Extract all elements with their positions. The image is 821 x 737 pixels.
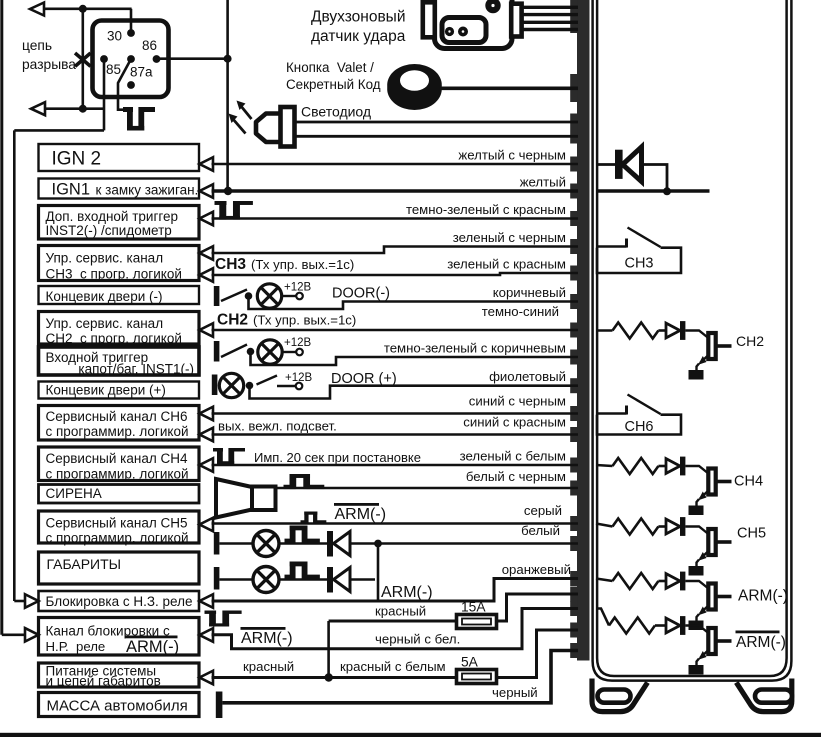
wire yellow (IGN1) <box>212 189 579 193</box>
svg-text:Светодиод: Светодиод <box>301 104 371 120</box>
ground bar car mass <box>216 692 223 719</box>
svg-text:Сервисный канал СН5: Сервисный канал СН5 <box>46 516 188 531</box>
svg-text:Упр. сервис. канал: Упр. сервис. канал <box>46 251 164 266</box>
wire dark-green-brown (INST1) <box>251 352 579 366</box>
wire red to pin <box>497 594 579 621</box>
shock sensor left tab <box>423 2 435 37</box>
shock sensor top screw <box>485 0 500 13</box>
svg-text:Сервисный канал СН6: Сервисный канал СН6 <box>46 409 188 424</box>
label DOOR (+) <box>331 371 397 387</box>
LED flange <box>281 107 295 147</box>
arrow into INST2 box <box>200 212 214 226</box>
wire vertical between arrows <box>82 9 85 109</box>
label yellow-black <box>458 148 566 163</box>
svg-text:черный с бел.: черный с бел. <box>375 632 460 647</box>
svg-text:СН3: СН3 <box>624 256 653 272</box>
break mark X (tsep razryva) <box>75 53 91 66</box>
arrow into CH3 box lower <box>200 268 214 282</box>
negative pulse symbol INST2 <box>215 201 253 220</box>
wire green-red (CH3 lower) <box>212 273 579 275</box>
wire lamp INST1 to +12V <box>282 349 303 356</box>
svg-text:темно-зеленый с коричневым: темно-зеленый с коричневым <box>384 341 566 356</box>
lamp parking lights 2 <box>253 567 279 593</box>
svg-text:СН3 с прогр. логикой: СН3 с прогр. логикой <box>46 267 182 282</box>
svg-text:Секретный Код: Секретный Код <box>286 77 381 92</box>
svg-text:красный с белым: красный с белым <box>340 659 446 674</box>
arrow into IGN1 box <box>200 184 214 198</box>
node D1 to yellow wire <box>663 187 671 195</box>
arrow into CH3 box upper <box>200 246 214 260</box>
svg-text:Упр. сервис. канал: Упр. сервис. канал <box>46 316 164 331</box>
shock sensor inner connector <box>442 18 486 43</box>
wire junction vertical <box>377 544 380 601</box>
svg-text:15А: 15А <box>461 600 486 615</box>
svg-text:серый: серый <box>524 503 562 518</box>
svg-text:85: 85 <box>106 62 121 77</box>
wire yellow-black (IGN2) <box>212 163 579 166</box>
wire violet (DOOR+) <box>250 386 579 399</box>
svg-text:красный: красный <box>243 659 294 674</box>
wire red through 15A fuse <box>329 620 457 623</box>
LED emission arrow 2 <box>229 114 246 134</box>
svg-text:5А: 5А <box>461 655 479 670</box>
svg-text:ГАБАРИТЫ: ГАБАРИТЫ <box>47 556 122 572</box>
arrow into CH4 box <box>200 458 214 472</box>
svg-text:ARM(-): ARM(-) <box>738 588 788 605</box>
svg-text:ARM(-): ARM(-) <box>241 630 293 647</box>
svg-text:Имп. 20 сек при постановке: Имп. 20 сек при постановке <box>254 450 421 465</box>
svg-text:IGN 2: IGN 2 <box>52 149 102 170</box>
box INST2 trigger <box>39 206 200 240</box>
wire blue-black (CH6 upper) <box>212 412 579 415</box>
wire white-black (SIREN) <box>276 487 579 490</box>
label white <box>521 523 560 538</box>
node junction top <box>79 5 87 13</box>
box blocking channel second line with ARM(-) label <box>46 636 180 657</box>
label +12V door(+) <box>285 372 313 384</box>
wire yellow stub inside unit <box>596 189 710 193</box>
arrow into blocking channel box right <box>200 628 214 642</box>
svg-text:красный: красный <box>375 604 426 619</box>
arrow into blocking NC box right <box>200 594 214 608</box>
label orange <box>502 562 571 577</box>
svg-text:ARM(-): ARM(-) <box>736 634 786 651</box>
relay pin 86 lead <box>157 57 228 60</box>
label blue-black <box>469 394 566 409</box>
switch CH3 inside unit <box>596 228 681 274</box>
arrow into blocking channel box left <box>25 628 39 642</box>
relay pin 30 <box>107 29 135 44</box>
relay pin 87 bottom contact <box>127 81 135 89</box>
wire lamp to +12V terminal <box>282 293 303 300</box>
svg-text:и цепей габаритов: и цепей габаритов <box>46 674 161 689</box>
switch CH6 inside unit <box>596 395 681 435</box>
valet button wire <box>441 87 578 91</box>
svg-text:с программир. логикой: с программир. логикой <box>46 531 189 546</box>
svg-text:темно-синий: темно-синий <box>482 304 559 319</box>
negative pulse symbol blocking channel <box>205 611 242 627</box>
box CH3 service channel <box>39 246 200 282</box>
lamp door (-) <box>257 284 281 308</box>
sensor wire 2 <box>521 13 578 16</box>
siren horn <box>216 479 276 518</box>
LED body dome <box>256 114 281 143</box>
left page border wire (to N.O. relay channel) <box>2 0 26 635</box>
svg-text:Концевик двери (+): Концевик двери (+) <box>46 383 166 398</box>
wire blue-red (CH6 lower) <box>212 433 579 436</box>
svg-text:IGN1: IGN1 <box>52 181 91 199</box>
box door switch (+) <box>39 382 200 399</box>
label CH3 inside <box>624 256 653 272</box>
label dark-green-brown <box>384 341 566 356</box>
svg-text:вых. вежл. подсвет.: вых. вежл. подсвет. <box>218 419 337 434</box>
label red-white <box>340 659 446 674</box>
svg-text:ARM(-): ARM(-) <box>126 638 179 656</box>
label ARM(-) overlined small <box>241 627 293 647</box>
lamp parking lights 1 <box>253 531 279 557</box>
node power junction <box>325 673 333 681</box>
box blocking channel NO relay <box>39 618 200 656</box>
arrow into CH5 box <box>200 518 214 532</box>
svg-text:Доп. входной триггер: Доп. входной триггер <box>46 209 179 224</box>
fuse 5A <box>457 670 497 684</box>
label dark-blue <box>482 304 559 319</box>
positive pulse symbol siren wire <box>284 474 325 489</box>
label grey <box>524 503 562 518</box>
parking lights dash 1 <box>214 532 220 555</box>
label black-white <box>375 632 460 647</box>
wire ARM from blocking NC box <box>212 579 579 602</box>
label 15A <box>461 600 486 615</box>
svg-text:Блокировка с Н.З. реле: Блокировка с Н.З. реле <box>46 594 193 609</box>
transistor output ARM-bar <box>609 616 732 674</box>
svg-text:86: 86 <box>142 38 157 53</box>
arrow into blocking NC box left <box>25 594 39 608</box>
door switch (+) contact bar <box>212 375 218 396</box>
sensor wire 4 <box>521 28 578 31</box>
label DOOR(-) <box>332 286 390 302</box>
label green-red <box>447 257 566 272</box>
wire black-white from blocking channel box <box>212 609 579 649</box>
label CH2 inside <box>736 333 764 349</box>
box CH2 service channel <box>39 312 200 347</box>
wire black ground <box>222 651 578 703</box>
arrow into CH2 box <box>200 323 214 337</box>
label white-black <box>466 469 566 484</box>
label red power <box>243 659 294 674</box>
unit left mounting foot <box>592 679 648 712</box>
wire left vertical to blocking NC box <box>14 130 26 601</box>
box CH5 service channel <box>39 511 200 546</box>
label shock sensor <box>311 9 406 46</box>
positive pulse symbol lights 1 <box>285 526 320 544</box>
label green-white <box>460 449 566 464</box>
parking lights dash 2 <box>214 567 220 590</box>
diode D1 inside unit <box>596 147 667 191</box>
label CH6 inside <box>624 419 653 435</box>
wire relay-85 to left side <box>14 129 104 132</box>
positive pulse symbol lights 2 <box>285 562 320 580</box>
wire CH2 into unit <box>596 329 613 332</box>
label ARM(-) inside <box>738 588 788 605</box>
svg-text:белый с черным: белый с черным <box>466 469 566 484</box>
box IGN1 <box>39 179 200 199</box>
node junction lower <box>79 105 87 113</box>
wire red power <box>212 676 457 679</box>
label CH2 Tx <box>217 312 356 329</box>
wire grey (CH5) <box>212 522 579 525</box>
svg-text:белый: белый <box>521 523 560 538</box>
wire green-black (CH3 upper) <box>212 247 579 254</box>
label tsep razryva <box>22 38 76 72</box>
wire ARM into unit <box>596 579 613 582</box>
svg-text:желтый с черным: желтый с черным <box>458 148 566 163</box>
label CH5 inside <box>737 526 766 542</box>
transistor output CH5 <box>613 517 732 575</box>
box system power <box>39 663 200 689</box>
wire dark-blue (CH2) <box>212 329 579 332</box>
svg-text:(Тх упр. вых.=1с): (Тх упр. вых.=1с) <box>251 257 354 272</box>
node door(-) <box>245 292 253 300</box>
svg-text:зеленый с красным: зеленый с красным <box>447 257 566 272</box>
label valet button <box>286 60 381 92</box>
bottom page border line <box>0 733 821 737</box>
svg-text:зеленый с черным: зеленый с черным <box>453 230 566 245</box>
svg-text:+12В: +12В <box>285 372 313 384</box>
shock sensor right tab <box>511 4 521 37</box>
shock sensor screw 2 <box>458 27 468 37</box>
arrow into CH6 box upper <box>200 407 214 421</box>
relay pin 87a contact <box>127 55 153 79</box>
wire arrow lower-left <box>31 102 45 115</box>
wire green-white (CH4) <box>212 464 579 467</box>
door switch (+) arm <box>257 376 278 385</box>
wire arm to +12V terminal <box>277 383 302 390</box>
negative pulse symbol at relay output <box>123 107 155 131</box>
fuse 15A <box>457 615 497 629</box>
label ARM(-) overlined inside <box>736 631 786 652</box>
svg-text:черный: черный <box>492 685 538 700</box>
alarm unit connector pin strip <box>577 0 590 661</box>
node door(+) <box>246 382 254 390</box>
wire lights 2 <box>220 578 376 581</box>
svg-text:Сервисный канал СН4: Сервисный канал СН4 <box>46 451 188 466</box>
label yellow <box>520 175 566 190</box>
label blue-red <box>463 415 566 430</box>
label +12V INST1 <box>284 337 312 349</box>
positive pulse symbol CH5 <box>301 512 327 524</box>
label red 15A <box>375 604 426 619</box>
label CH4 inside <box>734 474 763 490</box>
svg-text:INST2(-) /спидометр: INST2(-) /спидометр <box>46 223 172 238</box>
LED wire lower <box>295 135 579 138</box>
svg-text:фиолетовый: фиолетовый <box>489 369 566 384</box>
box CH4 service channel <box>39 447 200 482</box>
door switch (-) arm <box>221 290 247 302</box>
svg-text:+12В: +12В <box>284 337 312 349</box>
wire red riser to 15A <box>327 621 330 678</box>
svg-text:оранжевый: оранжевый <box>502 562 571 577</box>
svg-text:DOOR (+): DOOR (+) <box>331 371 397 387</box>
svg-text:ARM(-): ARM(-) <box>335 506 387 523</box>
svg-text:СН3: СН3 <box>215 256 246 273</box>
wire white (lights 1) <box>220 542 579 545</box>
svg-text:с программир. логикой: с программир. логикой <box>46 467 189 482</box>
svg-text:Двухзоновый: Двухзоновый <box>311 9 405 26</box>
node lights junction <box>374 540 382 548</box>
box car ground <box>39 693 200 717</box>
box blocking NC relay <box>39 591 200 611</box>
svg-text:Концевик двери (-): Концевик двери (-) <box>46 289 163 304</box>
svg-text:Кнопка Valet /: Кнопка Valet / <box>286 60 374 75</box>
label CH3 Tx <box>215 256 354 273</box>
box INST1 trigger <box>39 347 200 377</box>
svg-text:СН6: СН6 <box>624 419 653 435</box>
transistor output CH4 <box>613 457 732 515</box>
wire ARM-bar into unit <box>596 609 609 626</box>
lamp door (+) <box>219 373 243 397</box>
svg-text:СН2 с прогр. логикой: СН2 с прогр. логикой <box>46 331 182 346</box>
svg-text:темно-зеленый с красным: темно-зеленый с красным <box>406 202 566 217</box>
box parking lights <box>39 552 200 584</box>
wire top horizontal to relay pin 30 <box>44 8 132 11</box>
alarm unit case inner wall <box>597 0 787 676</box>
svg-text:(Тх упр. вых.=1с): (Тх упр. вых.=1с) <box>253 313 356 328</box>
box IGN 2 <box>39 144 200 171</box>
LED emission arrow 1 <box>237 101 252 120</box>
label ARM(-) overlined CH5 <box>334 503 386 523</box>
label brown <box>493 285 566 300</box>
diode lights 2 <box>327 567 350 593</box>
wire CH4 into unit <box>596 465 613 466</box>
valet button <box>387 64 442 110</box>
box door switch (-) <box>39 286 200 304</box>
svg-text:разрыва: разрыва <box>22 57 76 72</box>
node INST1 <box>247 348 255 356</box>
transistor output ARM <box>613 572 732 630</box>
svg-text:желтый: желтый <box>520 175 566 190</box>
relay pin 85 <box>100 55 121 77</box>
label ARM(-) on blocking wire <box>381 584 433 601</box>
wire red-white to pin <box>497 630 579 678</box>
svg-text:Н.Р. реле: Н.Р. реле <box>46 639 106 654</box>
door switch (-) contact bar <box>214 286 220 306</box>
node on IGN1 wire <box>224 187 232 195</box>
svg-text:+12В: +12В <box>284 282 312 294</box>
label +12V door(-) <box>284 282 312 294</box>
relay pin 86 <box>142 38 160 63</box>
negative pulse symbol CH4 <box>213 448 245 464</box>
svg-text:к замку зажиган.: к замку зажиган. <box>96 183 199 198</box>
label LED <box>301 104 371 120</box>
sensor wire 1 <box>521 6 578 9</box>
shock sensor screw 1 <box>445 27 454 36</box>
label 5A <box>461 655 479 670</box>
relay pin 30 lead <box>130 9 133 33</box>
wire CH5 into unit <box>596 524 613 527</box>
svg-text:30: 30 <box>107 29 122 44</box>
hood trigger contact bar <box>214 341 220 362</box>
svg-text:ARM(-): ARM(-) <box>381 584 433 601</box>
svg-text:синий с черным: синий с черным <box>469 394 566 409</box>
lamp INST1 <box>258 340 282 364</box>
arrow into CH6 box lower <box>200 428 214 442</box>
svg-text:СН2: СН2 <box>217 312 248 329</box>
svg-text:датчик удара: датчик удара <box>311 28 406 45</box>
svg-text:зеленый с белым: зеленый с белым <box>460 449 566 464</box>
svg-text:синий с красным: синий с красным <box>463 415 566 430</box>
wire brown (DOOR-) <box>249 296 579 309</box>
svg-text:МАССА автомобиля: МАССА автомобиля <box>47 698 188 715</box>
hood trigger switch arm <box>221 345 247 358</box>
LED wire upper <box>295 121 579 124</box>
relay K1 body <box>93 21 169 98</box>
arrow into system power box <box>200 671 214 685</box>
wire vertical from top to IGN1 <box>226 0 229 191</box>
svg-text:CH2: CH2 <box>736 333 764 349</box>
wire second horizontal <box>45 107 105 110</box>
box SIREN <box>39 485 200 504</box>
svg-text:с программир. логикой: с программир. логикой <box>46 424 189 439</box>
diode lights 1 <box>327 531 350 557</box>
label dark-green-red <box>406 202 566 217</box>
label black <box>492 685 538 700</box>
label pulse 20s <box>254 450 421 465</box>
svg-text:цепь: цепь <box>22 38 52 53</box>
wire arrow top-left (break circuit out) <box>30 3 44 16</box>
svg-text:капот/баг. INST1(-): капот/баг. INST1(-) <box>78 362 194 377</box>
label green-black <box>453 230 566 245</box>
sensor wire 3 <box>521 21 578 24</box>
two-zone shock sensor body <box>435 0 513 49</box>
transistor output CH2 <box>613 321 732 379</box>
label violet <box>489 369 566 384</box>
connector pin tabs <box>570 0 577 658</box>
alarm unit case outer wall <box>593 0 792 681</box>
svg-text:CH4: CH4 <box>734 474 763 490</box>
svg-text:СИРЕНА: СИРЕНА <box>46 486 102 501</box>
relay pin 85 lead <box>103 59 106 130</box>
label courtesy light out <box>218 419 337 434</box>
wire dark-green-red (INST2) <box>212 217 579 220</box>
relay pin 87a lead <box>118 59 131 110</box>
svg-text:коричневый: коричневый <box>493 285 566 300</box>
svg-text:CH5: CH5 <box>737 526 766 542</box>
svg-text:87а: 87а <box>130 65 153 80</box>
unit right mounting foot <box>736 679 792 712</box>
node relay86 junction <box>224 55 232 63</box>
box CH6 service channel <box>39 406 200 441</box>
arrow into IGN2 box <box>200 157 214 171</box>
svg-text:DOOR(-): DOOR(-) <box>332 286 390 302</box>
